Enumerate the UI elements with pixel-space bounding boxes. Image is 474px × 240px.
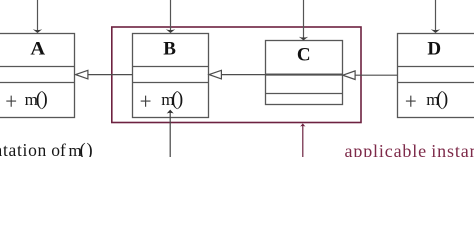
svg-text:(): ()	[171, 89, 182, 110]
svg-text:applicable: applicable	[345, 141, 427, 157]
svg-text:A: A	[30, 38, 45, 59]
svg-text:of: of	[51, 140, 66, 157]
svg-text:(): ()	[80, 141, 94, 157]
svg-text:D: D	[427, 38, 441, 59]
svg-text:B: B	[163, 38, 176, 59]
svg-text:C: C	[297, 45, 311, 66]
svg-text:(): ()	[36, 89, 47, 110]
svg-text:ntation: ntation	[0, 140, 47, 157]
svg-text:instances: instances	[431, 141, 474, 157]
svg-text:(): ()	[436, 89, 447, 110]
